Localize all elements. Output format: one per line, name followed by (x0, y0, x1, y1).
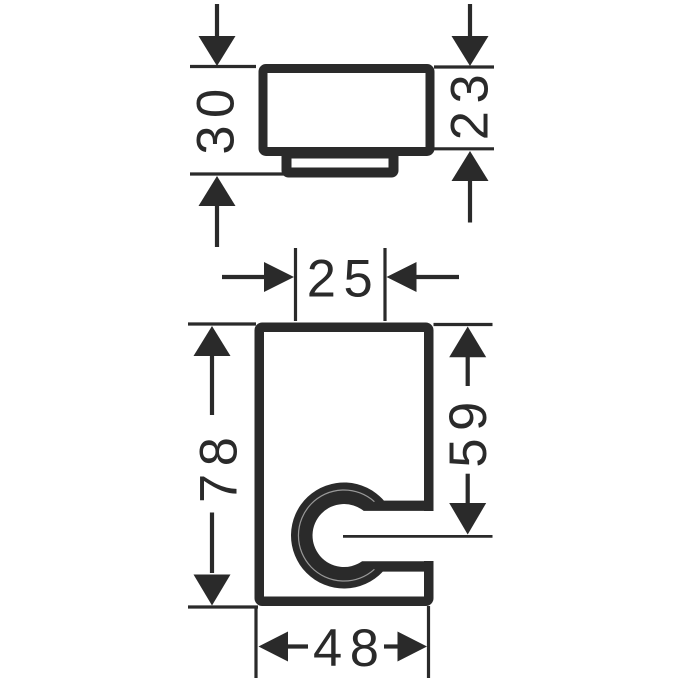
dim 59: top extension line (434, 323, 493, 326)
dim 78: lower line (210, 513, 214, 574)
dim 25: right tail (416, 275, 459, 279)
svg-text:23: 23 (441, 67, 500, 140)
dim 59: lower line (466, 474, 470, 503)
dim 30: top tail line (215, 4, 219, 37)
dim 48: right inner tail (384, 644, 399, 648)
dim 78: top extension line (188, 322, 256, 325)
dim 23: top extension line (434, 65, 494, 68)
dim 59: center extension line (343, 535, 493, 538)
dim 78: bottom extension line (188, 605, 258, 608)
dim 30: top extension line (190, 65, 256, 68)
dim 23: top arrow (down) (452, 36, 489, 66)
svg-text:48: 48 (313, 619, 386, 678)
svg-text:78: 78 (190, 430, 249, 503)
hairline arc inside ring (298, 490, 374, 581)
dim 48: left extension line (254, 606, 257, 678)
dim 23: bottom arrow (up) (452, 151, 489, 181)
dim 23: bottom tail line (468, 180, 472, 223)
dim 30: top arrow (down) (199, 36, 236, 66)
dim 30: bottom extension line (190, 172, 284, 175)
dim 25: left arrow (right-pointing) (264, 262, 294, 292)
dim 25: right arrow (left-pointing) (387, 262, 417, 292)
dim 25: left extension line (294, 248, 297, 321)
dim 25: left tail (222, 275, 265, 279)
dim 78: bottom arrow (down) (194, 575, 231, 606)
svg-text:25: 25 (307, 250, 380, 309)
dim 23: top tail line (468, 4, 472, 37)
dim 59: top arrow (up) (449, 327, 486, 358)
svg-text:59: 59 (439, 394, 498, 467)
dim 78: top arrow (up) (194, 326, 231, 356)
dim 25: right extension line (383, 248, 386, 321)
dim 30: bottom tail line (215, 205, 219, 247)
dim 48: right extension line (427, 606, 430, 678)
top view main body rectangle (263, 69, 430, 152)
dim 78: upper line (210, 355, 214, 415)
slot cut (erase right border) (420, 511, 446, 561)
top view lip rectangle (287, 154, 394, 173)
front view body rectangle (259, 327, 429, 601)
dim 48: left inner tail (287, 644, 308, 648)
dim 48: right arrow (right-pointing) (398, 632, 428, 662)
dim 23: bottom extension line (434, 147, 494, 150)
dim 48: left arrow (left-pointing) (259, 632, 289, 662)
holder ring with arms (filled silhouette) (291, 482, 433, 588)
svg-text:30: 30 (187, 81, 246, 154)
dim 59: bottom arrow (down) (449, 503, 486, 535)
dim 59: upper line (466, 356, 470, 386)
dim 30: bottom arrow (up) (199, 176, 236, 206)
